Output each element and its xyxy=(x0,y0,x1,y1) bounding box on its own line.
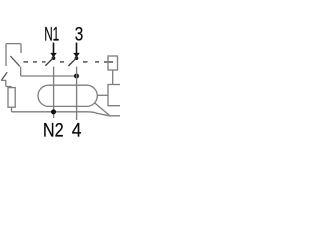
node A junction dot on phase conductor xyxy=(74,74,79,79)
L conductor wire xyxy=(76,67,78,120)
arrow terminal N1 (head) xyxy=(50,53,57,57)
wire from test contact down and right to node A xyxy=(21,67,75,76)
contact dot 3 xyxy=(75,56,79,60)
test button contact blade xyxy=(10,56,19,66)
N conductor wire xyxy=(53,67,55,118)
contact dot N1 xyxy=(52,56,56,60)
svg-text:4: 4 xyxy=(72,120,82,142)
wire CT to relay xyxy=(97,94,108,96)
switch blade L pole xyxy=(68,57,77,66)
node N2 junction dot xyxy=(51,109,56,114)
test button bracket xyxy=(6,44,21,66)
background xyxy=(0,0,120,144)
switch blade N pole xyxy=(45,57,54,66)
svg-text:N1: N1 xyxy=(44,24,59,46)
bottom test wire xyxy=(12,112,121,116)
link between boxes xyxy=(112,70,114,85)
trip mechanism box xyxy=(108,56,118,70)
wire to trip relay bottom xyxy=(95,103,110,116)
test resistor contact blade xyxy=(2,72,8,80)
arrow terminal 3 (head) xyxy=(73,53,80,57)
svg-text:N2: N2 xyxy=(43,120,64,142)
current transformer core (oval) xyxy=(38,85,97,106)
wire resistor to bottom wire xyxy=(11,107,13,112)
mechanical linkage (dashed) xyxy=(24,61,114,63)
resistor R (test resistor) xyxy=(8,88,15,108)
svg-text:3: 3 xyxy=(75,24,84,46)
wire blade to resistor R xyxy=(1,80,11,87)
trip relay coil box xyxy=(108,85,120,106)
arrow terminal N1 (stem) xyxy=(53,43,55,54)
arrow terminal 3 (stem) xyxy=(76,43,78,54)
